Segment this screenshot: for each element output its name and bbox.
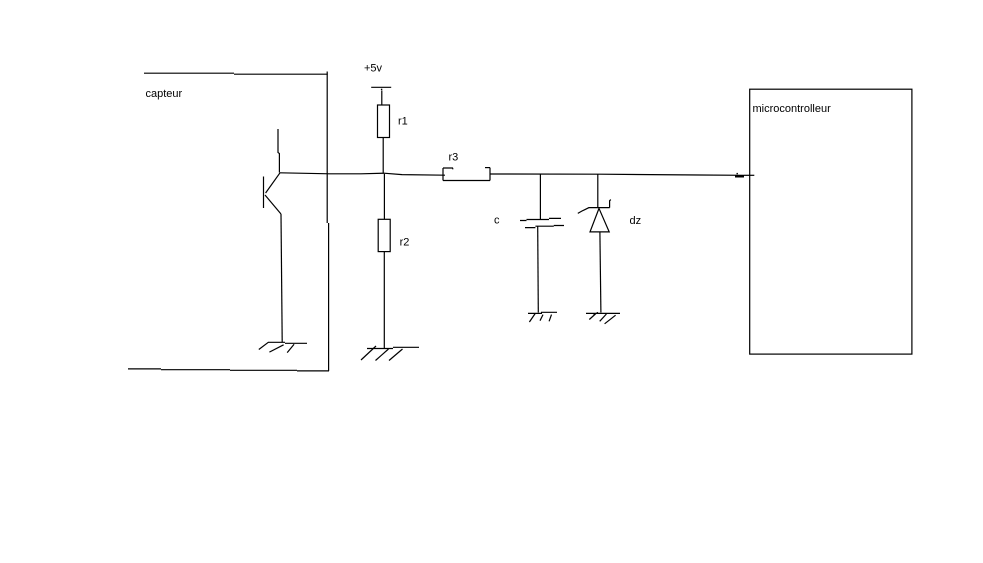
wire r2 to ground: [383, 252, 385, 348]
arrowhead at microcontroller pin: [735, 173, 754, 177]
svg-text:+5v: +5v: [364, 63, 383, 75]
resistor r1: [378, 105, 390, 138]
wire r1 to node: [382, 138, 384, 174]
svg-text:microcontrolleur: microcontrolleur: [753, 103, 832, 115]
wire zener to ground: [600, 232, 601, 313]
svg-text:r3: r3: [449, 151, 459, 163]
wire node to zener: [597, 174, 599, 207]
resistor r3 (open-top rectangle): [443, 168, 490, 181]
svg-text:r1: r1: [398, 116, 408, 128]
transistor Q1 (NPN, collector stub up): [264, 129, 282, 214]
resistor r2: [378, 219, 390, 251]
wire node to capacitor: [539, 174, 541, 219]
power +5v bar: [371, 87, 391, 90]
wire main: collector to r3: [280, 173, 445, 175]
svg-text:capteur: capteur: [146, 88, 183, 100]
zener diode dz: [578, 200, 611, 232]
ground (emitter): [259, 342, 307, 352]
ground (r2): [361, 346, 419, 361]
wire emitter to ground: [281, 214, 282, 342]
box capteur (open-left rectangle): [128, 72, 329, 372]
wire capacitor to ground: [537, 227, 540, 313]
wire main: r3 to microcontroller: [490, 174, 744, 175]
capacitor c: [520, 218, 564, 227]
svg-text:dz: dz: [630, 215, 642, 227]
ground (c): [528, 312, 557, 322]
box microcontrolleur: [750, 89, 912, 354]
wire node to r2: [383, 174, 385, 219]
svg-text:r2: r2: [400, 237, 410, 249]
svg-text:c: c: [494, 215, 500, 227]
ground (dz): [586, 312, 620, 323]
wire +5v bar to r1: [381, 91, 383, 106]
